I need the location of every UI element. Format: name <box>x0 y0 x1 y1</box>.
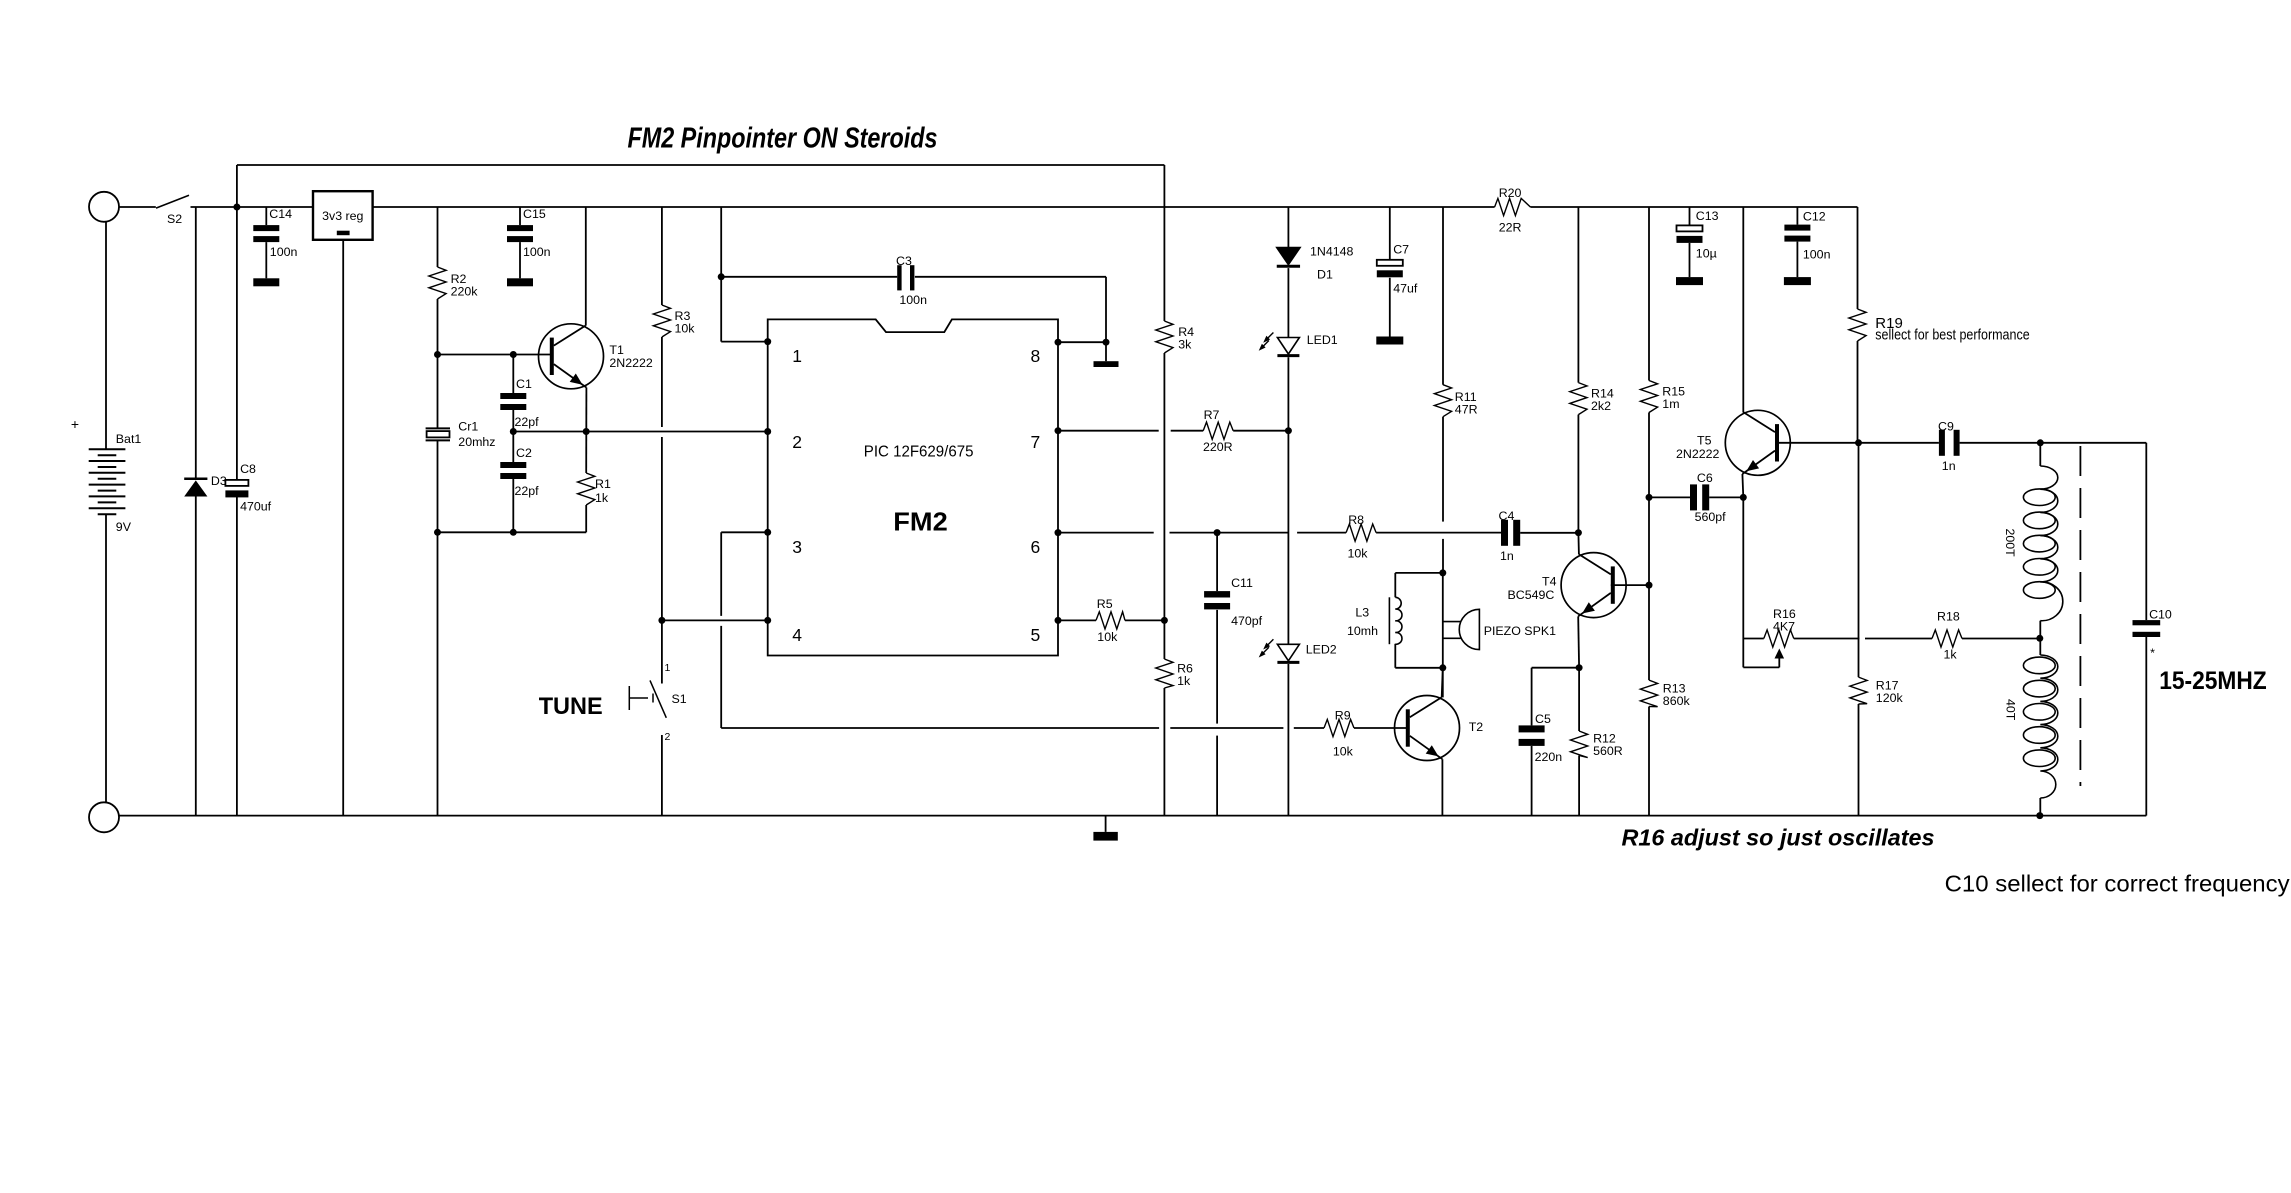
svg-text:7: 7 <box>1031 432 1041 452</box>
svg-text:S1: S1 <box>672 692 687 706</box>
node pin2-C1C2 <box>510 428 517 435</box>
svg-text:2N2222: 2N2222 <box>1676 447 1720 461</box>
svg-text:10k: 10k <box>1348 547 1369 561</box>
speaker PIEZO SPK1 <box>1442 573 1444 698</box>
inductor 200T coil <box>2039 443 2041 466</box>
svg-text:560R: 560R <box>1593 744 1623 758</box>
resistor R4 3k <box>1156 321 1173 353</box>
node pin4-R3-S1 <box>658 617 665 624</box>
node pin3 chip <box>764 529 771 536</box>
node base-R2 <box>434 351 441 358</box>
svg-text:40T: 40T <box>2004 699 2018 721</box>
svg-text:20mhz: 20mhz <box>458 435 495 449</box>
svg-text:8: 8 <box>1031 346 1041 366</box>
ground pin8 <box>1105 342 1107 361</box>
wire pin2 net <box>513 431 767 433</box>
wire C3 net vertical <box>720 207 722 342</box>
svg-text:22R: 22R <box>1499 221 1522 235</box>
wire LED chain to LED2 <box>1287 431 1289 645</box>
svg-text:PIEZO SPK1: PIEZO SPK1 <box>1484 624 1556 638</box>
diode D3 <box>195 207 197 478</box>
resistor R2 220k <box>437 207 439 267</box>
wire pin4 net <box>662 619 768 621</box>
wire upper loop to R4 <box>237 164 1165 166</box>
svg-text:10k: 10k <box>1333 745 1354 759</box>
resistor R15 1m <box>1648 207 1650 381</box>
svg-text:Cr1: Cr1 <box>458 420 478 434</box>
node R7-LED <box>1285 427 1292 434</box>
svg-text:C14: C14 <box>269 207 292 221</box>
wire top rail <box>191 206 1495 208</box>
svg-text:1k: 1k <box>1177 674 1191 688</box>
wire C5 link <box>1532 667 1580 669</box>
wire to C10 top <box>2040 442 2146 444</box>
svg-text:C7: C7 <box>1393 243 1409 257</box>
node C4-T4col <box>1575 529 1582 536</box>
svg-text:C6: C6 <box>1697 471 1713 485</box>
svg-text:560pf: 560pf <box>1695 510 1727 524</box>
svg-text:220k: 220k <box>451 284 479 298</box>
svg-text:5: 5 <box>1031 625 1041 645</box>
inductor 40T coil <box>2039 638 2041 655</box>
resistor R3 10k <box>661 207 663 305</box>
svg-text:220n: 220n <box>1535 750 1563 764</box>
node T5 base-R19R17 <box>1855 439 1862 446</box>
node L3 top junction <box>1439 569 1446 576</box>
svg-text:1n: 1n <box>1500 549 1514 563</box>
wire T2 base net <box>721 727 1159 729</box>
svg-text:C10: C10 <box>2149 607 2172 621</box>
resistor R20 22R <box>1495 198 1531 215</box>
svg-text:10µ: 10µ <box>1696 247 1717 261</box>
resistor R18 1k <box>1932 630 1962 647</box>
capacitor C13 10u <box>1689 207 1691 225</box>
ground C13 <box>1676 277 1703 285</box>
svg-text:860k: 860k <box>1663 694 1691 708</box>
svg-text:C9: C9 <box>1938 420 1954 434</box>
node pin5-R4R6 <box>1161 617 1168 624</box>
node pin5 chip <box>1055 617 1062 624</box>
svg-text:C11: C11 <box>1231 576 1253 590</box>
diode D1 1N4148 <box>1287 207 1289 248</box>
svg-text:C15: C15 <box>523 207 546 221</box>
svg-text:FM2 Pinpointer ON Steroids: FM2 Pinpointer ON Steroids <box>628 122 938 154</box>
node C6-T5emitter <box>1740 494 1747 501</box>
svg-text:T4: T4 <box>1542 575 1557 589</box>
node pin7 chip <box>1055 427 1062 434</box>
svg-text:100n: 100n <box>523 245 551 259</box>
svg-text:6: 6 <box>1031 537 1041 557</box>
svg-text:1N4148: 1N4148 <box>1310 245 1354 259</box>
svg-text:C10 sellect for correct freque: C10 sellect for correct frequency <box>1945 871 2290 897</box>
svg-text:1k: 1k <box>595 491 609 505</box>
svg-text:D1: D1 <box>1317 268 1333 282</box>
svg-text:R16 adjust so just oscillates: R16 adjust so just oscillates <box>1622 824 1935 850</box>
resistor R17 120k <box>1858 443 1860 677</box>
wire pin6 net <box>1058 532 1154 534</box>
switch S2 <box>119 206 156 208</box>
node pin8 gnd <box>1103 339 1110 346</box>
crystal Cr1 20mhz <box>426 427 450 429</box>
svg-text:22pf: 22pf <box>515 484 540 498</box>
wire T4 base link <box>1611 584 1649 586</box>
svg-text:C2: C2 <box>516 446 532 460</box>
svg-text:R1: R1 <box>595 477 611 491</box>
resistor R12 560R <box>1578 668 1580 731</box>
svg-text:10k: 10k <box>675 322 696 336</box>
core dashed line <box>2079 446 2081 786</box>
capacitor C2 22pf <box>512 432 514 463</box>
resistor R5 10k <box>1096 612 1125 629</box>
capacitor C8 470uf <box>236 207 238 480</box>
node base-C1 <box>510 351 517 358</box>
svg-text:T1: T1 <box>609 343 624 357</box>
node pin6 chip <box>1055 529 1062 536</box>
svg-text:9V: 9V <box>116 520 132 534</box>
svg-text:1k: 1k <box>1944 647 1958 661</box>
svg-text:C4: C4 <box>1499 509 1515 523</box>
svg-text:T2: T2 <box>1469 720 1484 734</box>
svg-text:100n: 100n <box>270 245 298 259</box>
node pin4 chip <box>764 617 771 624</box>
svg-text:R20: R20 <box>1499 186 1522 200</box>
svg-text:C3: C3 <box>896 254 912 268</box>
capacitor C6 560pf <box>1649 496 1690 498</box>
inductor L3 10mh <box>1394 573 1396 597</box>
ground C12 <box>1784 277 1811 285</box>
svg-text:4: 4 <box>792 625 802 645</box>
svg-text:BC549C: BC549C <box>1508 588 1555 602</box>
capacitor C10 <box>2133 620 2161 625</box>
capacitor C1 22pf <box>512 355 514 394</box>
svg-text:15-25MHZ: 15-25MHZ <box>2159 667 2267 695</box>
svg-text:10k: 10k <box>1097 630 1118 644</box>
node C3-pin1 <box>718 273 725 280</box>
svg-text:L3: L3 <box>1355 606 1369 620</box>
svg-text:*: * <box>2150 646 2155 660</box>
node coils junction <box>2036 635 2043 642</box>
svg-text:C13: C13 <box>1696 209 1719 223</box>
capacitor C3 100n <box>897 265 901 290</box>
svg-text:2N2222: 2N2222 <box>609 356 653 370</box>
wire reg ground pin <box>342 240 344 816</box>
svg-text:1: 1 <box>665 662 671 674</box>
node rail-C8 junction <box>233 204 240 211</box>
wire T1 base net <box>438 354 551 356</box>
svg-text:1n: 1n <box>1942 459 1956 473</box>
svg-text:4K7: 4K7 <box>1773 620 1795 634</box>
svg-text:3v3 reg: 3v3 reg <box>322 209 363 223</box>
capacitor C15 100n <box>519 207 521 225</box>
svg-text:D3: D3 <box>211 474 227 488</box>
svg-text:100n: 100n <box>899 293 927 307</box>
capacitor C9 1n <box>1859 442 1939 444</box>
resistor R7 220R <box>1203 422 1233 439</box>
svg-text:470pf: 470pf <box>1231 614 1263 628</box>
svg-text:TUNE: TUNE <box>539 693 603 720</box>
resistor R13 860k <box>1648 585 1650 680</box>
svg-text:sellect for best performance: sellect for best performance <box>1875 327 2029 344</box>
wire pin7 net <box>1058 430 1159 432</box>
resistor R6 1k <box>1163 620 1165 659</box>
svg-text:470uf: 470uf <box>240 500 272 514</box>
wire pin3 net <box>721 531 768 533</box>
node 40T-rail <box>2036 812 2043 819</box>
ground C14 <box>253 278 279 286</box>
svg-text:47R: 47R <box>1455 402 1478 416</box>
node C9-200T <box>2037 439 2044 446</box>
battery Bat1 9V <box>89 192 119 222</box>
svg-text:Bat1: Bat1 <box>116 432 142 446</box>
transistor T1 2N2222 <box>585 207 587 326</box>
node pin2-emitter <box>583 428 590 435</box>
resistor R11 47R <box>1442 207 1444 385</box>
svg-text:R7: R7 <box>1204 408 1220 422</box>
resistor R9 10k <box>1324 719 1354 736</box>
switch S1 TUNE <box>661 620 663 683</box>
resistor R1 1k <box>578 473 595 505</box>
svg-text:2k2: 2k2 <box>1591 399 1611 413</box>
resistor R19 sellect for best performance <box>1857 207 1859 309</box>
transistor T5 2N2222 <box>1742 207 1744 412</box>
capacitor C12 100n <box>1796 207 1798 225</box>
ground C15 <box>507 278 533 286</box>
svg-text:LED2: LED2 <box>1306 643 1337 657</box>
wire T5 base link <box>1775 442 1859 444</box>
IC U1 PIC 12F629/675 FM2 <box>768 319 1058 655</box>
svg-text:S2: S2 <box>167 212 182 226</box>
svg-text:R18: R18 <box>1937 610 1960 624</box>
wire L3-piezo bottom <box>1395 667 1443 669</box>
svg-text:C5: C5 <box>1535 712 1551 726</box>
ground C7 <box>1376 337 1403 345</box>
node T4 emitter junction <box>1576 664 1583 671</box>
svg-text:C8: C8 <box>240 462 256 476</box>
svg-text:47uf: 47uf <box>1393 282 1418 296</box>
wire oscillator bottom <box>438 531 587 533</box>
resistor R16 4K7 trimmer <box>1743 638 1764 640</box>
wire pin5 net <box>1058 619 1096 621</box>
svg-text:2: 2 <box>665 731 671 743</box>
svg-text:100n: 100n <box>1803 248 1831 262</box>
svg-text:3: 3 <box>792 537 802 557</box>
node pin2 chip <box>764 428 771 435</box>
svg-text:R5: R5 <box>1097 597 1113 611</box>
node L3 bottom junction <box>1439 664 1446 671</box>
resistor R8 10k <box>1346 524 1376 541</box>
resistor R14 2k2 <box>1577 207 1579 383</box>
wire T5 emitter to R16 wiper <box>1743 666 1779 668</box>
svg-text:C1: C1 <box>516 377 532 391</box>
transistor T4 BC549C <box>1577 533 1580 555</box>
svg-text:2: 2 <box>792 432 802 452</box>
transistor T2 <box>1395 696 1460 761</box>
svg-text:R9: R9 <box>1335 709 1351 723</box>
capacitor C4 1n <box>1501 520 1508 546</box>
capacitor C5 220n <box>1531 668 1533 726</box>
capacitor C14 100n <box>265 207 267 225</box>
wire bottom rail <box>119 815 2147 817</box>
ground main rail <box>1105 816 1107 832</box>
LED2 <box>1277 644 1299 661</box>
svg-text:220R: 220R <box>1203 440 1233 454</box>
svg-text:1: 1 <box>792 346 802 366</box>
wire C3 top link <box>721 276 897 278</box>
wire R16 to R18 <box>1794 638 1860 640</box>
capacitor C11 470pf <box>1216 533 1218 592</box>
svg-text:200T: 200T <box>2003 529 2017 558</box>
svg-text:LED1: LED1 <box>1307 333 1338 347</box>
svg-text:+: + <box>71 416 79 432</box>
capacitor C7 47uf <box>1389 207 1391 260</box>
wire pin8 net <box>1058 341 1106 343</box>
svg-text:1m: 1m <box>1662 397 1679 411</box>
svg-text:T5: T5 <box>1697 434 1712 448</box>
svg-text:PIC 12F629/675: PIC 12F629/675 <box>864 444 974 461</box>
svg-text:C12: C12 <box>1803 209 1826 223</box>
svg-text:120k: 120k <box>1876 691 1904 705</box>
svg-text:R8: R8 <box>1348 513 1364 527</box>
svg-text:FM2: FM2 <box>893 508 947 536</box>
node osc bottom C2 <box>510 529 517 536</box>
node osc bottom left <box>434 529 441 536</box>
svg-text:22pf: 22pf <box>515 415 540 429</box>
svg-text:3k: 3k <box>1178 338 1192 352</box>
node pin8 chip <box>1055 339 1062 346</box>
node R15-C6 <box>1646 494 1653 501</box>
svg-text:10mh: 10mh <box>1347 624 1378 638</box>
regulator 3v3 reg <box>313 191 373 240</box>
node pin6-C11 <box>1214 529 1221 536</box>
wire L3-piezo top <box>1395 572 1443 574</box>
node pin1 chip <box>764 338 771 345</box>
node T4 base-R15-R13 <box>1646 582 1653 589</box>
LED1 <box>1277 338 1299 355</box>
